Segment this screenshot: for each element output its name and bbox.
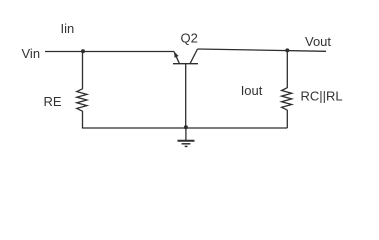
transistor Q2 [173,49,198,64]
svg-text:Q2: Q2 [181,31,198,46]
wire: bottom rail [82,127,287,129]
resistor RC||RL [282,88,292,110]
node: base/ground junction on bottom rail [184,125,188,129]
node: output junction (Vout / RC||RL) [285,48,289,52]
svg-text:RC||RL: RC||RL [301,89,343,104]
svg-text:Vin: Vin [22,46,41,61]
wire: RC||RL branch down from output rail [286,50,288,88]
wire: RE to bottom rail [82,111,84,128]
node: input junction (Vin / RE) [81,49,85,53]
svg-text:Iin: Iin [61,21,75,36]
svg-text:Iout: Iout [241,83,263,98]
ground [178,128,195,146]
wire: RE branch down from input rail [82,52,84,90]
resistor RE [77,89,87,111]
wire: Q2 base down to ground rail [185,64,187,128]
wire: output rail from Q2 collector to Vout [198,49,327,51]
svg-text:RE: RE [44,94,62,109]
wire: RC||RL to bottom rail [286,110,288,128]
svg-text:Vout: Vout [305,34,331,49]
wire: input rail from Vin to Q2 emitter [45,51,175,53]
